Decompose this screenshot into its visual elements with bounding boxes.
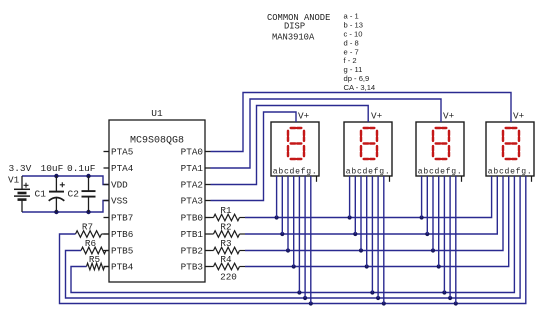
pin PTB2 (U1 right) <box>181 246 211 257</box>
node VSS rail (battery/C1/C2 bottom to VSS) <box>22 201 109 213</box>
svg-text:R4: R4 <box>220 254 232 265</box>
junction d DISP2 <box>365 264 369 268</box>
pin dp stub DISP4 <box>531 176 533 182</box>
junction C1 bottom <box>54 210 58 214</box>
wire PTB4 segment bus (row e) <box>71 176 514 293</box>
svg-text:dp - 6,9: dp - 6,9 <box>344 74 370 83</box>
pin VDD (U1 left) <box>104 180 129 191</box>
svg-text:V+: V+ <box>443 111 455 122</box>
resistor R2 <box>211 231 246 238</box>
svg-text:CA - 3,14: CA - 3,14 <box>344 83 376 92</box>
pin PTA4 (U1 left) <box>104 163 134 174</box>
svg-text:VDD: VDD <box>111 180 128 191</box>
svg-text:C1: C1 <box>35 189 47 200</box>
svg-text:MC9S08QG8: MC9S08QG8 <box>130 136 184 147</box>
svg-text:R6: R6 <box>85 238 96 249</box>
junction b DISP1 <box>280 232 284 236</box>
junction C2 top <box>86 174 90 178</box>
node VDD rail (battery/C1/C2 top to VDD) <box>22 176 109 185</box>
svg-text:VSS: VSS <box>111 196 128 207</box>
wire DISP2 segment pins a-g <box>350 176 384 304</box>
svg-text:g - 11: g - 11 <box>344 65 363 74</box>
svg-text:DISP: DISP <box>284 22 305 32</box>
pin PTB6 (U1 left) <box>104 229 134 240</box>
svg-text:a - 1: a - 1 <box>344 12 359 21</box>
resistor R1 <box>211 214 246 221</box>
svg-text:PTA3: PTA3 <box>181 196 203 207</box>
svg-text:V+: V+ <box>513 111 525 122</box>
junction d DISP1 <box>292 264 296 268</box>
wire PTA0 to DISP4 V+ <box>211 93 512 152</box>
svg-text:PTB3: PTB3 <box>181 262 203 273</box>
junction b DISP2 <box>353 232 357 236</box>
pin dp stub DISP2 <box>389 176 391 182</box>
pin PTB3 (U1 right) <box>181 262 211 273</box>
resistor R7 <box>76 231 110 238</box>
svg-text:R2: R2 <box>220 221 231 232</box>
label display pin map list <box>344 12 376 93</box>
wire PTA1 to DISP3 V+ <box>211 99 442 168</box>
junction c DISP2 <box>359 248 363 252</box>
svg-text:0.1uF: 0.1uF <box>67 163 96 174</box>
svg-text:R5: R5 <box>89 254 100 265</box>
svg-text:220: 220 <box>220 272 237 283</box>
junction C2 bottom <box>86 210 90 214</box>
resistor R4 <box>211 263 246 270</box>
wire PTA2 to DISP2 V+ <box>211 106 369 185</box>
label COMMON ANODE header <box>267 13 330 43</box>
7-segment display DISP1 (MAN3910A) <box>271 122 319 176</box>
wire PTB2 segment bus (row c) <box>245 176 503 251</box>
pin dp stub DISP3 <box>461 176 463 182</box>
junction g DISP2 <box>382 301 386 305</box>
svg-text:PTB7: PTB7 <box>111 213 133 224</box>
junction d DISP3 <box>437 264 441 268</box>
pin VSS (U1 left) <box>104 196 129 207</box>
svg-text:PTA5: PTA5 <box>111 147 133 158</box>
svg-text:abcdefg.: abcdefg. <box>488 167 533 176</box>
svg-text:U1: U1 <box>151 108 163 119</box>
svg-text:V+: V+ <box>298 111 310 122</box>
7-segment display DISP3 (MAN3910A) <box>416 122 464 176</box>
pin PTB5 (U1 left) <box>104 246 134 257</box>
svg-text:b - 13: b - 13 <box>344 20 363 29</box>
svg-text:PTB0: PTB0 <box>181 213 203 224</box>
junction f DISP1 <box>303 296 307 300</box>
junction e DISP2 <box>370 290 374 294</box>
junction f DISP2 <box>376 296 380 300</box>
svg-text:PTB2: PTB2 <box>181 246 203 257</box>
svg-text:c - 10: c - 10 <box>344 29 363 38</box>
svg-text:3.3V: 3.3V <box>9 163 32 174</box>
battery V1 <box>14 176 30 212</box>
svg-text:R1: R1 <box>220 205 232 216</box>
svg-text:d - 8: d - 8 <box>344 38 359 47</box>
wire PTB0 segment bus (row a) <box>245 176 492 218</box>
resistor R3 <box>211 247 246 254</box>
junction a DISP1 <box>275 215 279 219</box>
op-amp U1 box MC9S08QG8 <box>109 120 205 282</box>
7-segment display DISP2 (MAN3910A) <box>344 122 392 176</box>
svg-text:MAN3910A: MAN3910A <box>272 33 315 43</box>
svg-text:V+: V+ <box>371 111 383 122</box>
resistor R5 <box>87 263 110 270</box>
7-segment display DISP4 (MAN3910A) <box>486 122 534 176</box>
junction b DISP3 <box>425 232 429 236</box>
svg-text:10uF: 10uF <box>41 163 64 174</box>
wire DISP1 segment pins a-g <box>277 176 311 304</box>
capacitor C1 <box>49 176 65 212</box>
junction e DISP3 <box>442 290 446 294</box>
svg-text:PTA0: PTA0 <box>181 147 203 158</box>
svg-text:PTB1: PTB1 <box>181 229 204 240</box>
svg-text:PTA1: PTA1 <box>181 163 204 174</box>
wire PTB5 segment bus (row f) <box>66 176 521 298</box>
wire DISP3 segment pins a-g <box>422 176 456 304</box>
svg-text:abcdefg.: abcdefg. <box>418 167 463 176</box>
svg-text:abcdefg.: abcdefg. <box>273 167 318 176</box>
junction f DISP3 <box>448 296 452 300</box>
junction g DISP3 <box>454 301 458 305</box>
junction c DISP1 <box>286 248 290 252</box>
svg-text:abcdefg.: abcdefg. <box>346 167 391 176</box>
pin PTA0 (U1 right) <box>181 147 211 158</box>
svg-text:f - 2: f - 2 <box>344 56 357 65</box>
pin PTA5 (U1 left) <box>104 147 134 158</box>
junction e DISP1 <box>297 290 301 294</box>
svg-text:C2: C2 <box>68 189 80 200</box>
pin PTB4 (U1 left) <box>104 262 134 273</box>
svg-text:V1: V1 <box>8 175 20 186</box>
pin PTB0 (U1 right) <box>181 213 211 224</box>
svg-text:PTA2: PTA2 <box>181 180 203 191</box>
svg-text:R7: R7 <box>82 221 93 232</box>
wire PTA3 to DISP1 V+ <box>211 112 297 201</box>
svg-text:PTB4: PTB4 <box>111 262 134 273</box>
svg-text:PTA4: PTA4 <box>111 163 134 174</box>
svg-text:PTB5: PTB5 <box>111 246 133 257</box>
wire PTB3 segment bus (row d) <box>245 176 509 267</box>
svg-text:PTB6: PTB6 <box>111 229 133 240</box>
svg-text:e - 7: e - 7 <box>344 47 359 56</box>
pin PTA1 (U1 right) <box>181 163 211 174</box>
pin PTA2 (U1 right) <box>181 180 211 191</box>
pin PTB1 (U1 right) <box>181 229 211 240</box>
pin PTA3 (U1 right) <box>181 196 211 207</box>
wire PTB1 segment bus (row b) <box>245 176 497 234</box>
wire PTB6 segment bus (row g) <box>60 176 526 304</box>
junction c DISP3 <box>431 248 435 252</box>
junction a DISP3 <box>420 215 424 219</box>
pin dp stub DISP1 <box>316 176 318 182</box>
junction a DISP2 <box>348 215 352 219</box>
junction g DISP1 <box>309 301 313 305</box>
capacitor C2 <box>82 176 96 212</box>
pin PTB7 (U1 left) <box>104 213 134 224</box>
junction C1 top <box>54 174 58 178</box>
resistor R6 <box>81 247 109 254</box>
svg-text:R3: R3 <box>220 238 231 249</box>
